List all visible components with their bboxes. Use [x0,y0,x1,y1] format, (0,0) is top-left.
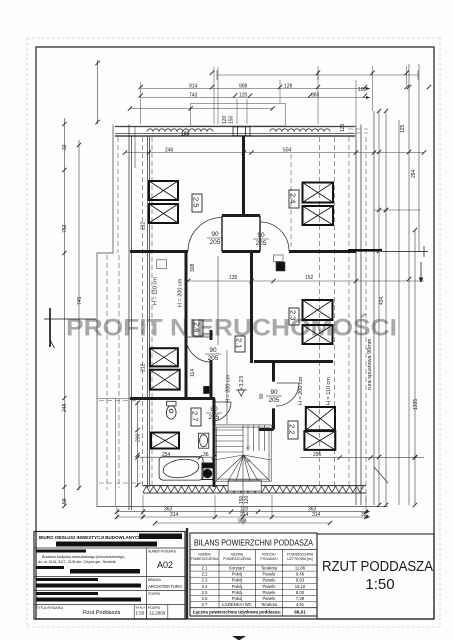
svg-text:2.4: 2.4 [202,584,208,589]
svg-text:2.6: 2.6 [193,322,202,332]
svg-text:230: 230 [136,433,142,442]
svg-text:NAZWA: NAZWA [231,553,244,557]
main solid border [36,47,434,619]
svg-text:2.1: 2.1 [202,566,208,571]
svg-text:743: 743 [189,93,198,99]
svg-text:11,86: 11,86 [295,566,306,571]
window in top gable wall [233,127,250,136]
svg-text:Pokój: Pokój [232,578,243,583]
svg-text:308: 308 [190,263,196,272]
wardrobe/window room 2.2 lower [304,431,335,450]
svg-text:2.1: 2.1 [235,338,244,348]
svg-text:212: 212 [141,221,147,230]
right dim verticals [378,111,380,505]
bottom zigzag wall [143,485,366,487]
svg-text:17: 17 [246,445,251,450]
svg-text:120: 120 [239,93,248,99]
washer [202,463,213,480]
svg-text:PROFIT NIERUCHOMOŚCI: PROFIT NIERUCHOMOŚCI [66,314,397,342]
svg-text:POMIESZCZENIA: POMIESZCZENIA [191,557,219,561]
svg-text:102: 102 [358,87,367,93]
svg-text:128: 128 [284,84,293,90]
svg-text:Łączna powierzchnia użytkowa p: Łączna powierzchnia użytkowa poddasza: [193,610,281,615]
wardrobe/window room 2.4 lower [303,206,334,225]
wardrobe/window room 2.5 lower [149,204,178,223]
texts of plan [162,84,367,525]
middle divider heavy [186,528,188,619]
svg-text:246: 246 [165,148,174,154]
wardrobe/window room 2.3 upper [303,300,333,320]
door 2.7 [212,402,231,421]
wardrobe/window room 2.4 upper [303,183,334,203]
door 2.5 [188,218,222,252]
svg-text:2.6: 2.6 [202,596,208,601]
wardrobes/windows with X [149,181,335,450]
svg-text:dz. nr 31/6, 31/7, 31/8 obr. C: dz. nr 31/6, 31/7, 31/8 obr. Chyża gm. Ś… [38,559,116,564]
section marks [44,246,428,347]
svg-text:294: 294 [411,169,417,178]
dashed roof lines [99,129,368,505]
svg-text:UŻYTKOWA [m²]: UŻYTKOWA [m²] [287,556,313,561]
svg-text:rura spustowa 90mm: rura spustowa 90mm [367,338,373,390]
left block [34,532,185,620]
svg-text:NUMER RYSUNKU: NUMER RYSUNKU [148,550,177,554]
svg-text:2.3: 2.3 [289,310,298,320]
svg-text:Panele: Panele [262,596,276,601]
extension verticals top [141,66,407,124]
svg-text:H = 200 cm: H = 200 cm [178,278,184,307]
svg-text:1:50: 1:50 [136,611,145,616]
svg-text:RZUT PODDASZA: RZUT PODDASZA [322,558,433,575]
svg-text:2.5: 2.5 [192,197,201,207]
svg-text:H = 200 cm: H = 200 cm [298,376,304,405]
title block texts [36,534,182,620]
svg-text:90: 90 [209,347,217,354]
door 2.6 [186,337,211,362]
svg-text:ARCHITEKTURA: ARCHITEKTURA [148,584,182,589]
svg-text:+3,23: +3,23 [239,376,245,390]
svg-text:Rzut Poddasza: Rzut Poddasza [83,610,121,616]
svg-text:Panele: Panele [262,572,276,577]
svg-text:2.7: 2.7 [202,602,208,607]
doors [186,218,299,422]
svg-text:125: 125 [400,124,406,133]
stairs [214,425,271,491]
svg-text:90: 90 [270,389,278,396]
roof window box above wall [191,104,286,127]
svg-text:Pokój: Pokój [232,596,243,601]
svg-text:90: 90 [257,232,265,239]
svg-text:908: 908 [238,518,247,524]
vent black box [204,386,210,393]
svg-text:BRANŻA: BRANŻA [148,577,162,582]
svg-text:114: 114 [190,369,196,377]
svg-text:68,01: 68,01 [294,610,306,615]
ARROWS [50,262,423,519]
right wall faces [356,125,361,506]
svg-text:100: 100 [181,132,190,138]
svg-text:296: 296 [313,452,322,458]
svg-text:9,46: 9,46 [296,572,305,577]
svg-text:2.4: 2.4 [289,193,298,203]
KW vent box [273,255,283,261]
svg-text:205: 205 [209,414,220,421]
svg-text:212: 212 [141,363,147,372]
bottom dims [117,511,370,513]
svg-text:4,91: 4,91 [296,602,305,607]
svg-text:254: 254 [162,452,171,458]
svg-text:150: 150 [229,115,235,124]
svg-text:POSADZKI: POSADZKI [260,557,277,561]
svg-text:POWIERZCHNIA: POWIERZCHNIA [287,553,314,557]
svg-text:745: 745 [77,296,83,305]
svg-text:PODPIS: PODPIS [148,606,160,610]
svg-text:Pokój: Pokój [232,584,243,589]
wardrobe/window room 2.6 lower [150,370,180,390]
table [190,533,317,616]
door 2.4 [260,222,289,251]
svg-text:Budowa budynku mieszkalnego je: Budowa budynku mieszkalnego jednorodzinn… [42,555,126,559]
svg-text:36: 36 [203,452,209,458]
left wall faces [129,125,150,511]
svg-text:Panele: Panele [262,584,276,589]
svg-text:RODZAJ: RODZAJ [262,553,276,557]
svg-text:Terakota: Terakota [261,602,278,607]
rotated dim texts [62,115,419,504]
svg-text:ŁAZIENKA+WC: ŁAZIENKA+WC [222,602,252,607]
svg-text:2.2: 2.2 [288,424,297,434]
svg-text:H = 200 cm: H = 200 cm [226,374,232,403]
toilet WC [167,401,176,406]
svg-text:314: 314 [170,512,179,518]
svg-text:248: 248 [62,403,68,412]
bathroom fixtures [159,401,213,480]
svg-text:90: 90 [259,393,265,399]
wardrobe/window room 2.3 lower [303,325,333,344]
svg-text:NUMER: NUMER [198,553,211,557]
top dimension lines [130,70,418,109]
svg-text:TYTUŁ RYSUNKU: TYTUŁ RYSUNKU [37,606,64,610]
svg-text:80: 80 [210,406,218,413]
chimney flue black square [276,262,285,271]
svg-text:58: 58 [62,498,68,504]
wardrobe/window room 2.5 upper [149,181,178,200]
svg-text:120: 120 [222,115,228,124]
svg-text:752: 752 [62,224,68,233]
svg-text:A02: A02 [157,560,173,570]
svg-text:205: 205 [208,355,219,362]
svg-text:12.2005: 12.2005 [149,611,166,616]
svg-text:214: 214 [240,512,249,518]
svg-text:15,10: 15,10 [295,584,306,589]
svg-text:Pokój: Pokój [232,572,243,577]
svg-text:90: 90 [211,231,219,238]
top gable wall with scallops [115,127,355,137]
svg-text:150: 150 [239,495,245,504]
door labels [205,231,282,421]
svg-text:Panele: Panele [262,590,276,595]
left eave outline [97,125,388,507]
svg-text:504: 504 [283,148,292,154]
shower/window bathroom 2.7 [151,433,179,449]
svg-text:205: 205 [256,240,267,247]
svg-text:1335: 1335 [413,399,419,410]
svg-text:2.2: 2.2 [202,572,208,577]
svg-text:152: 152 [305,275,314,281]
wardrobe/window room 2.2 upper [306,407,335,430]
W vent box [157,260,167,269]
svg-text:135: 135 [229,275,238,281]
svg-text:434: 434 [379,296,385,305]
right block [317,534,434,619]
svg-text:205: 205 [269,397,280,404]
svg-text:Terakota: Terakota [261,566,278,571]
bathtub [159,457,203,481]
svg-text:125: 125 [340,123,346,132]
svg-text:2.3: 2.3 [202,578,208,583]
door 2.2 [276,383,299,406]
svg-text:1:50: 1:50 [365,576,394,593]
svg-text:BILANS POWIERZCHNI PODDASZA: BILANS POWIERZCHNI PODDASZA [194,538,313,548]
svg-text:Pokój: Pokój [232,590,243,595]
svg-text:8,00: 8,00 [296,590,305,595]
svg-text:32: 32 [361,512,367,518]
svg-text:914: 914 [189,84,198,90]
svg-text:314: 314 [312,512,321,518]
svg-text:H = 110 cm: H = 110 cm [326,377,332,405]
svg-text:Panele: Panele [262,578,276,583]
bottom fold mark [232,636,246,640]
svg-text:7,39: 7,39 [296,596,305,601]
svg-text:POMIESZCZENIA: POMIESZCZENIA [223,557,251,561]
sink [199,433,209,448]
interior dims [125,152,424,154]
wardrobe/window room 2.6 upper [150,348,178,366]
svg-text:H = 110 cm: H = 110 cm [153,277,159,305]
svg-text:PODPIS: PODPIS [148,592,160,596]
svg-text:2.7: 2.7 [191,411,200,421]
svg-text:SKALA: SKALA [136,606,146,610]
svg-text:32: 32 [62,144,68,150]
left dim verticals [63,118,65,506]
room labels [191,190,299,439]
svg-text:908: 908 [239,84,248,90]
svg-text:8,93: 8,93 [296,578,305,583]
svg-text:Korytarz: Korytarz [229,566,245,571]
svg-text:205: 205 [210,239,221,246]
svg-text:983: 983 [311,93,320,99]
svg-text:BIURO OBSŁUGI INWESTYCJI BUDOW: BIURO OBSŁUGI INWESTYCJI BUDOWLANYCH [39,535,142,540]
H texts [153,277,374,405]
svg-text:2.5: 2.5 [202,590,208,595]
